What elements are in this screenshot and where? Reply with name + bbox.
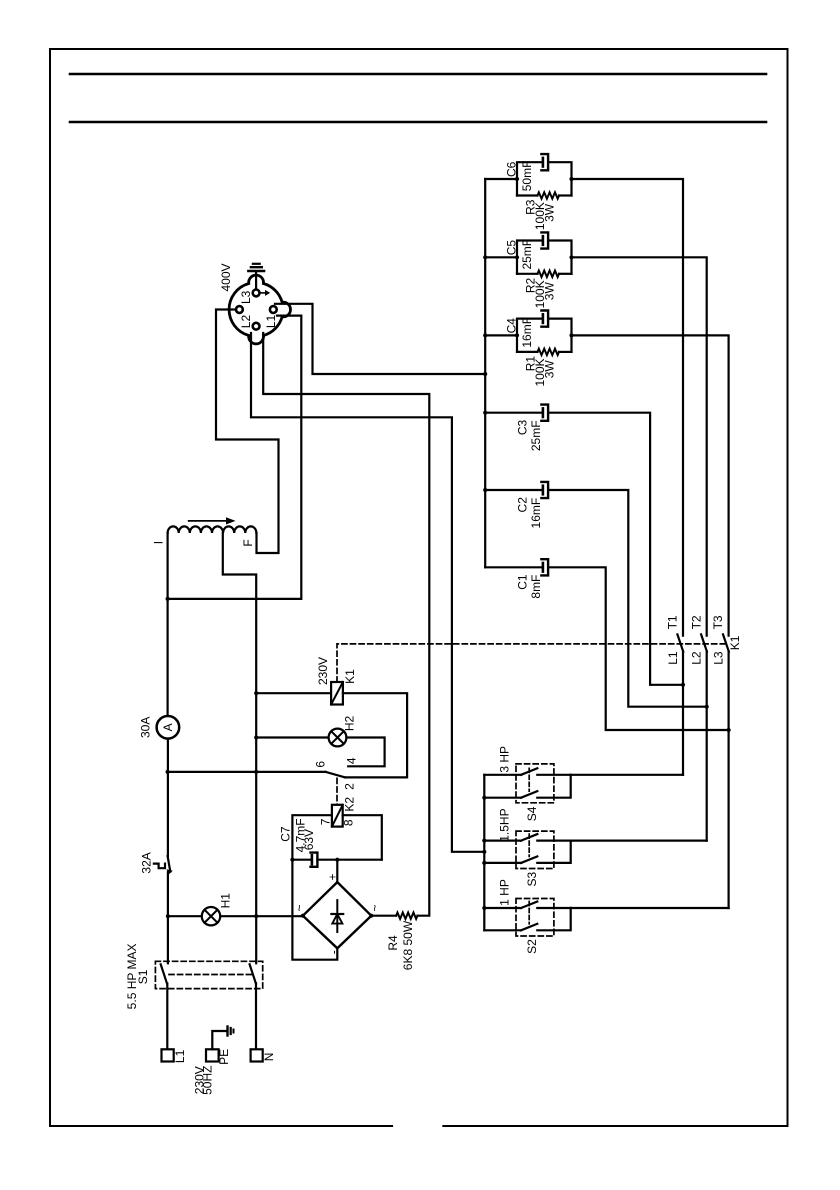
svg-text:A: A bbox=[161, 723, 175, 731]
capacitor C2 16mF bbox=[485, 482, 548, 498]
node on switch bus bbox=[482, 861, 486, 865]
svg-text:230V: 230V bbox=[316, 657, 330, 685]
dashed link: K1 coil to its contacts bbox=[337, 644, 729, 682]
node: H2 wire on neutral bus bbox=[254, 735, 258, 739]
node group right bbox=[569, 177, 573, 181]
capacitor C5 25mF bbox=[517, 232, 572, 273]
svg-text:5.5 HP MAX: 5.5 HP MAX bbox=[125, 943, 139, 1009]
S2 upper pole bbox=[484, 902, 570, 909]
capacitor C3 25mF bbox=[485, 405, 548, 421]
node on switch bus bbox=[482, 796, 486, 800]
svg-text:C2: C2 bbox=[515, 497, 529, 513]
S1 left contact blade bbox=[161, 964, 167, 983]
wire: PE to earth bbox=[212, 1031, 226, 1049]
wire: contact 6 feed bbox=[168, 771, 326, 773]
node group left bbox=[515, 333, 519, 337]
svg-text:K1: K1 bbox=[728, 635, 742, 650]
svg-text:C1: C1 bbox=[515, 574, 529, 590]
ground symbol (plug earth) bbox=[248, 264, 264, 290]
dashed link: blade to coil K2 bbox=[336, 778, 338, 804]
node on contact column bbox=[705, 705, 709, 709]
node on contact column bbox=[727, 728, 731, 732]
changeover contact K2 (6-2-4) blade bbox=[326, 772, 345, 778]
switch S1 5.5 HP MAX (dashed box) bbox=[155, 961, 262, 988]
svg-text:1.5HP: 1.5HP bbox=[497, 808, 511, 841]
wire L1 lower: right pin to main bus below coil bbox=[168, 316, 302, 599]
wire: C4 group to contact column bbox=[572, 335, 729, 635]
bridge rectifier bbox=[303, 882, 371, 948]
wire: bus link into C4 group bbox=[485, 334, 517, 336]
svg-text:400V: 400V bbox=[219, 263, 233, 291]
wire: bridge AC right to R4 bbox=[371, 915, 396, 917]
node on capacitor bus bbox=[483, 333, 487, 337]
pin L2 (bottom) bbox=[253, 323, 260, 330]
switch S2 1 HP (dashed box) bbox=[516, 899, 554, 937]
wire: C6 group to contact column bbox=[572, 179, 684, 636]
svg-text:50mF: 50mF bbox=[520, 161, 534, 192]
svg-text:T1: T1 bbox=[666, 615, 680, 629]
svg-text:S3: S3 bbox=[525, 871, 539, 886]
wire: bus 32A to S1 bbox=[167, 872, 169, 963]
svg-text:L2: L2 bbox=[690, 651, 704, 665]
svg-text:-: - bbox=[327, 950, 341, 954]
S3 lower pole bbox=[484, 841, 570, 863]
wire: S1 left to terminal L1 bbox=[166, 984, 168, 1050]
svg-text:3 HP: 3 HP bbox=[497, 746, 511, 773]
node: control feed from left bus bbox=[166, 770, 170, 774]
svg-text:25mF: 25mF bbox=[520, 239, 534, 270]
contactor K1 contact T3/L3 bbox=[723, 634, 729, 908]
terminal L1 bbox=[162, 1049, 174, 1061]
wire: H1 row (left bus to bridge AC left) bbox=[168, 915, 303, 917]
node: L1 lower joins left main bus bbox=[166, 597, 170, 601]
svg-text:2: 2 bbox=[343, 783, 357, 790]
wire: bus link into C6 group bbox=[485, 178, 517, 180]
node group left bbox=[515, 255, 519, 259]
wire: switch bank bus bbox=[483, 775, 485, 931]
lamp H1 bbox=[202, 907, 220, 925]
wire: bus ammeter to 32A breaker bbox=[167, 739, 169, 857]
terminal N bbox=[251, 1049, 263, 1061]
wire: C5 group to contact column bbox=[572, 257, 707, 635]
wire: neutral bus to relay coil K1 bbox=[256, 692, 331, 694]
node group right bbox=[569, 333, 573, 337]
svg-text:L1: L1 bbox=[666, 651, 680, 665]
svg-text:H2: H2 bbox=[342, 716, 356, 732]
svg-text:PE: PE bbox=[217, 1049, 231, 1065]
S1 dashed mechanical link bbox=[169, 974, 253, 976]
capacitor C7 4.7mF 63V bbox=[292, 853, 381, 867]
svg-text:F: F bbox=[241, 539, 255, 546]
svg-text:32A: 32A bbox=[140, 852, 154, 873]
svg-text:K2: K2 bbox=[342, 797, 356, 812]
wire: capacitor bank bus bbox=[484, 179, 486, 567]
svg-text:L3: L3 bbox=[239, 290, 253, 304]
svg-text:~: ~ bbox=[293, 904, 307, 911]
inductor F (autotransformer winding) bbox=[168, 526, 257, 533]
svg-text:C5: C5 bbox=[504, 240, 518, 256]
ammeter A 30A bbox=[157, 716, 180, 739]
wire: neutral bus to lamp H2 bbox=[256, 736, 328, 738]
resistor R4 6K8 50W bbox=[396, 913, 417, 919]
wire: K1 coil to contact 2 loop bbox=[343, 693, 407, 777]
capacitor C6 50mF bbox=[517, 154, 572, 195]
svg-text:4: 4 bbox=[345, 757, 359, 764]
wire: H2 to contact pin 4 bbox=[346, 738, 384, 767]
wire: left main bus (coil left end down to ammeter) bbox=[167, 533, 169, 716]
svg-text:T2: T2 bbox=[689, 615, 703, 629]
relay coil K2 bbox=[332, 805, 343, 827]
wire: K2 pin7 to C7 minus node bbox=[292, 815, 332, 860]
wire L1 upper: right pin to capacitor bus bbox=[275, 304, 485, 374]
relay coil K1 230V bbox=[331, 682, 343, 705]
svg-text:8mF: 8mF bbox=[529, 575, 543, 599]
breaker 32A thermal cutout bbox=[154, 856, 173, 875]
svg-text:C3: C3 bbox=[515, 420, 529, 436]
svg-text:L2: L2 bbox=[239, 315, 253, 329]
svg-text:N: N bbox=[262, 1053, 276, 1062]
node group left bbox=[515, 177, 519, 181]
svg-text:50HZ: 50HZ bbox=[201, 1066, 215, 1095]
current arrow over coil bbox=[189, 517, 236, 524]
svg-text:L1: L1 bbox=[173, 1049, 187, 1063]
svg-text:I: I bbox=[151, 541, 165, 544]
S4 lower pole bbox=[484, 775, 570, 798]
resistor R2 100K 3W bbox=[517, 273, 538, 275]
svg-text:3W: 3W bbox=[543, 203, 557, 222]
node on switch bus bbox=[482, 906, 486, 910]
svg-text:H1: H1 bbox=[219, 893, 233, 909]
node group right bbox=[569, 255, 573, 259]
wire L2 B: bottom pin to R4 bbox=[263, 333, 429, 916]
S3 dashed mechanical link bbox=[528, 834, 530, 856]
svg-text:C6: C6 bbox=[504, 161, 518, 177]
pin L1 (right) bbox=[270, 306, 277, 313]
svg-text:C7: C7 bbox=[279, 826, 293, 842]
svg-text:6: 6 bbox=[313, 761, 327, 768]
node on capacitor bus bbox=[483, 255, 487, 259]
svg-text:16mF: 16mF bbox=[529, 498, 543, 529]
svg-text:6K8 50W: 6K8 50W bbox=[401, 920, 415, 970]
node: C7 plus / bridge plus bbox=[335, 858, 339, 862]
wire: bridge plus up to C7 node bbox=[336, 860, 338, 882]
capacitor C1 8mF bbox=[485, 559, 548, 575]
lamp H2 bbox=[329, 729, 347, 747]
capacitor C4 16mF bbox=[517, 311, 572, 352]
svg-text:S2: S2 bbox=[525, 939, 539, 954]
node: neutral bus crossing joins contact feed bbox=[254, 770, 258, 774]
svg-text:16mF: 16mF bbox=[520, 317, 534, 348]
svg-text:T3: T3 bbox=[711, 615, 725, 629]
wire L2 A: bottom pin to switch bank bus bbox=[251, 333, 484, 852]
svg-text:K1: K1 bbox=[343, 669, 357, 684]
wire: C1 to contact lower column bbox=[548, 567, 729, 730]
node on switch bus bbox=[482, 839, 486, 843]
wire: bus link into C5 group bbox=[485, 256, 517, 258]
svg-text:~: ~ bbox=[368, 904, 382, 911]
node on capacitor bus bbox=[483, 411, 487, 415]
S2 dashed mechanical link bbox=[528, 902, 530, 924]
connector X1 3P+E plug 400V bbox=[229, 275, 290, 344]
resistor R1 100K 3W bbox=[517, 351, 538, 353]
S1 right contact blade bbox=[250, 964, 256, 983]
wire: C2 to contact lower column bbox=[548, 490, 707, 707]
node: H1 wire on left bus bbox=[166, 914, 170, 918]
ground symbol at PE bbox=[228, 1027, 234, 1036]
pin PE (top) with earth arrow bbox=[253, 290, 271, 297]
wire: S2 to contact column bbox=[571, 907, 729, 909]
node: L1 feed joins capacitor bus bbox=[483, 372, 487, 376]
S2 lower pole bbox=[484, 908, 570, 930]
node: C7 minus bbox=[290, 858, 294, 862]
svg-text:L1: L1 bbox=[264, 315, 278, 329]
wire: C7 minus rail to bridge minus bbox=[292, 860, 337, 960]
svg-text:L3: L3 bbox=[712, 651, 726, 665]
wire: coil tap to neutral bus bbox=[223, 533, 256, 963]
resistor R3 100K 3W bbox=[517, 194, 538, 196]
svg-text:30A: 30A bbox=[139, 717, 153, 738]
wire: C3 to contact lower column bbox=[548, 413, 683, 685]
svg-text:R4: R4 bbox=[386, 935, 400, 951]
svg-text:+: + bbox=[326, 873, 340, 880]
svg-text:C4: C4 bbox=[504, 318, 518, 334]
switch S4 3 HP (dashed box) bbox=[516, 764, 554, 803]
switch S3 1.5HP (dashed box) bbox=[516, 831, 554, 868]
contactor K1 contact T1/L1 bbox=[677, 634, 683, 774]
wire: K2 pin8 to C7 plus node bbox=[343, 815, 382, 860]
svg-text:8: 8 bbox=[341, 819, 355, 826]
pin L3 (left) bbox=[236, 306, 243, 313]
node on contact column bbox=[681, 683, 685, 687]
svg-text:3W: 3W bbox=[543, 360, 557, 379]
wire: S3 to contact column bbox=[571, 839, 707, 841]
node: L2 feed joins switch bus bbox=[482, 850, 486, 854]
node: neutral bus joins H1 wire bbox=[254, 914, 258, 918]
svg-text:S4: S4 bbox=[525, 806, 539, 821]
node: bridge AC right bbox=[369, 914, 373, 918]
svg-text:63V: 63V bbox=[302, 829, 316, 850]
svg-text:7: 7 bbox=[319, 818, 333, 825]
wire: S4 to contact column bbox=[571, 774, 683, 776]
terminal PE bbox=[206, 1049, 219, 1061]
wire: S1 right to terminal N bbox=[255, 984, 257, 1050]
svg-text:3W: 3W bbox=[543, 282, 557, 301]
node: bridge AC left bbox=[301, 914, 305, 918]
wire L3: left pin to coil right end bbox=[216, 310, 279, 554]
svg-text:25mF: 25mF bbox=[529, 420, 543, 451]
node: K1 wire on neutral bus bbox=[254, 691, 258, 695]
contactor K1 contact T2/L2 bbox=[701, 634, 707, 840]
svg-text:1 HP: 1 HP bbox=[497, 879, 511, 906]
S4 dashed mechanical link bbox=[528, 768, 530, 791]
S3 upper pole bbox=[484, 834, 570, 841]
node on capacitor bus bbox=[483, 488, 487, 492]
S4 upper pole bbox=[484, 768, 570, 775]
